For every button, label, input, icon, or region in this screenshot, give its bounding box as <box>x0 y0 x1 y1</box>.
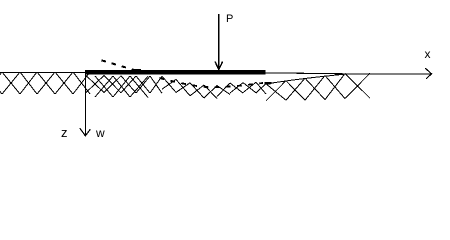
ground hatching under beam second offset row <box>95 76 148 98</box>
label x (axis) <box>425 49 431 59</box>
load arrow P shaft <box>218 14 220 69</box>
label w (deflection) <box>96 128 105 138</box>
load arrow P head <box>215 62 223 70</box>
z-axis arrowhead (w deflection arrow) <box>80 128 91 136</box>
dashed deflection curve under beam <box>160 78 264 87</box>
label P (load) <box>226 14 233 24</box>
dashed deflection curve left of load <box>102 60 138 71</box>
label z (axis) <box>61 128 68 138</box>
ground hatching last X at right <box>345 73 370 98</box>
ground hatching in settlement dip <box>162 76 266 98</box>
ground hatching under beam <box>86 76 162 94</box>
deflection curve bump over beam <box>134 69 142 71</box>
settled ground surface line right of beam <box>266 74 349 84</box>
z-axis shaft <box>85 73 87 136</box>
ground hatching left of z-axis <box>0 72 90 94</box>
x-axis line right of beam <box>265 73 431 74</box>
junction blob of dashed curve and ground settlement line <box>265 82 272 85</box>
ground hatching on rising settled surface <box>266 74 345 101</box>
beam (thick bar) on elastic foundation <box>85 70 266 75</box>
ground surface line left of origin <box>0 72 85 74</box>
x-axis arrowhead <box>425 68 431 79</box>
